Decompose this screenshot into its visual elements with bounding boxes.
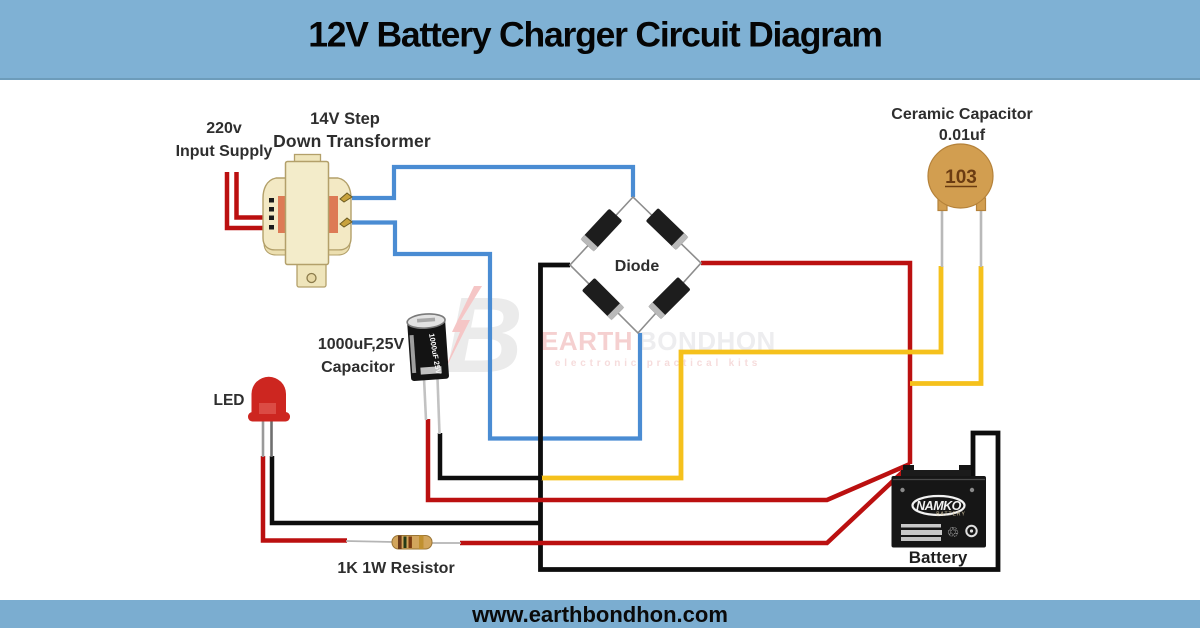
wire: blue secondary top (transformer to bridge top) bbox=[352, 167, 633, 198]
wire: red positive from bridge right vertex to battery bbox=[701, 263, 910, 464]
wire: yellow from ceramic cap left lead to black bus bbox=[541, 266, 941, 478]
wire: yellow from ceramic cap right lead to red bus bbox=[910, 266, 981, 384]
wire: black from LED cathode to black bus bbox=[272, 456, 542, 523]
diode D1 top-left bbox=[581, 209, 623, 252]
svg-text:EARTH: EARTH bbox=[541, 326, 633, 356]
svg-text:Input Supply: Input Supply bbox=[176, 143, 273, 160]
wire: red input supply line A bbox=[227, 172, 272, 228]
resistor R1 leads bbox=[346, 541, 394, 542]
NAMKO oval logo bbox=[913, 496, 965, 515]
wire: red from resistor to battery bbox=[460, 465, 910, 543]
transformer T1 bbox=[263, 155, 352, 288]
svg-text:Battery: Battery bbox=[909, 548, 968, 567]
winding right (orange) bbox=[327, 196, 338, 233]
wire: black negative from bridge left vertex to battery loop bbox=[541, 265, 999, 570]
wire: red from electrolytic capacitor positive to battery bbox=[428, 419, 910, 500]
svg-text:BATTERY: BATTERY bbox=[936, 512, 966, 518]
svg-text:220v: 220v bbox=[206, 120, 242, 137]
diode D3 bottom-left bbox=[582, 278, 624, 320]
svg-text:Down Transformer: Down Transformer bbox=[273, 131, 431, 151]
gold pin lower right bbox=[340, 218, 352, 227]
core bbox=[286, 162, 329, 265]
watermark logo B with lightning bolt bbox=[443, 274, 523, 395]
svg-text:103: 103 bbox=[945, 167, 977, 188]
terminal posts bbox=[903, 465, 914, 472]
ceramic capacitor C2 disc bbox=[928, 144, 993, 211]
bridge diamond outline bbox=[570, 197, 701, 333]
wire: red input supply line B bbox=[237, 172, 273, 218]
diode D2 top-right bbox=[646, 208, 689, 250]
electrolytic capacitor C1 leads bbox=[424, 378, 426, 420]
svg-text:electronic practical kits: electronic practical kits bbox=[555, 358, 761, 369]
svg-text:LED: LED bbox=[214, 392, 245, 409]
screws bbox=[900, 488, 904, 492]
main body bbox=[892, 476, 987, 548]
wire: black from electrolytic capacitor negative to black bus bbox=[440, 433, 542, 478]
gold pin upper right bbox=[340, 193, 352, 202]
svg-text:0.01uf: 0.01uf bbox=[939, 127, 986, 144]
battery B1 bbox=[892, 465, 987, 548]
lid bbox=[901, 470, 971, 478]
label prints bbox=[901, 524, 941, 528]
right bobbin bbox=[327, 178, 351, 250]
svg-text:www.earthbondhon.com: www.earthbondhon.com bbox=[471, 602, 728, 627]
svg-text:Capacitor: Capacitor bbox=[321, 359, 395, 376]
svg-text:B: B bbox=[445, 274, 523, 395]
svg-text:Ceramic Capacitor: Ceramic Capacitor bbox=[891, 106, 1032, 123]
top tab bbox=[295, 155, 321, 164]
left bobbin bbox=[263, 178, 287, 250]
wire: red from LED anode to resistor bbox=[263, 456, 347, 541]
resistor R1 body bbox=[392, 536, 432, 550]
winding left (orange) bbox=[278, 196, 287, 233]
top banner bbox=[0, 0, 1200, 80]
pins left bbox=[269, 198, 274, 203]
svg-text:14V Step: 14V Step bbox=[310, 110, 380, 128]
wire: blue secondary bottom (transformer to bridge bottom) bbox=[352, 223, 640, 439]
electrolytic capacitor C1 body bbox=[407, 313, 450, 381]
svg-text:12V Battery Charger Circuit Di: 12V Battery Charger Circuit Diagram bbox=[308, 15, 882, 55]
LED D5 red dome bbox=[248, 377, 290, 422]
svg-text:Diode: Diode bbox=[615, 258, 660, 275]
diode D4 bottom-right bbox=[648, 277, 690, 319]
LED legs bbox=[262, 420, 265, 457]
svg-text:♲: ♲ bbox=[947, 524, 960, 540]
bottom tab bbox=[297, 263, 326, 287]
svg-text:1000uF,25V: 1000uF,25V bbox=[318, 336, 405, 353]
svg-text:1K 1W Resistor: 1K 1W Resistor bbox=[337, 560, 454, 577]
bottom banner bbox=[0, 600, 1200, 628]
ceramic capacitor C2 leads bbox=[941, 206, 944, 267]
